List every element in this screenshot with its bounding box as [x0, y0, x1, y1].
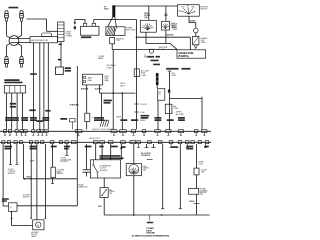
svg-text:4 TERM: 4 TERM — [66, 35, 73, 37]
stub below bus a — [138, 144, 140, 148]
wire switch bottom line — [17, 205, 77, 207]
label 18 GRN tag — [10, 103, 16, 105]
wire long left vertical — [76, 66, 78, 206]
condenser box — [110, 37, 115, 43]
HEI distributor box — [30, 37, 58, 43]
wire resistor to sender — [196, 175, 198, 189]
wire sender to bottom bus — [196, 194, 198, 215]
svg-text:A/C COMP: A/C COMP — [176, 113, 185, 116]
svg-text:TO ECM: TO ECM — [140, 104, 147, 106]
wire arrow stub — [120, 144, 122, 160]
svg-text:C-100: C-100 — [140, 112, 145, 114]
wire coil secondary right — [115, 17, 117, 27]
wire pigtail to module — [75, 18, 85, 20]
svg-text:RUN: RUN — [192, 7, 195, 9]
stub below bus d — [205, 144, 207, 148]
svg-text:TACH: TACH — [104, 8, 109, 11]
fuel gauge wire upper — [133, 144, 135, 163]
wire feed to gauge2 — [165, 6, 167, 21]
wire esc stub — [66, 144, 68, 155]
noise capacitor C2 — [83, 169, 91, 171]
wire relay to bulkhead — [157, 100, 159, 129]
junction block box — [177, 50, 206, 58]
wire condenser to junction line — [111, 44, 113, 50]
svg-text:UNIT: UNIT — [200, 194, 204, 196]
bottom bus line — [104, 214, 209, 216]
wire box stub 2 — [101, 144, 103, 160]
spark plug 1 — [5, 11, 9, 22]
wire HEI pin2 to bulkhead — [39, 43, 41, 130]
distributor cap circle — [9, 36, 19, 46]
wire plug2 to distributor — [21, 21, 23, 35]
stub below bus b — [170, 144, 172, 148]
spark plug 2 — [20, 11, 24, 22]
wire legend drop — [149, 215, 151, 221]
chassis ground symbol — [99, 120, 109, 126]
svg-text:GAUGES FUSE: GAUGES FUSE — [178, 52, 194, 55]
tick ac — [147, 158, 153, 160]
label hot in run row — [166, 68, 179, 70]
engine ground box — [56, 67, 64, 74]
wire bus drop right 2 — [179, 144, 181, 209]
ignition coil C1 — [106, 27, 125, 36]
label ESC module — [81, 36, 91, 38]
wire bus drop right 1 — [162, 144, 164, 209]
inline resistor R2 — [194, 168, 199, 175]
svg-text:14 BLK: 14 BLK — [26, 176, 32, 179]
ground tag above bulkhead — [70, 119, 76, 122]
tick C100 lower — [134, 119, 139, 121]
wire switch to fusible link — [188, 16, 190, 22]
wire tach to junction block — [145, 32, 147, 37]
wire compressor to switch — [103, 178, 105, 188]
wire coil top feed — [114, 5, 178, 7]
wire coil battery to bulkhead — [136, 20, 138, 130]
svg-text:ALL WIRES 18 GA UNLESS OTHERWI: ALL WIRES 18 GA UNLESS OTHERWISE NOTED — [132, 235, 170, 238]
svg-text:CAPACITOR: CAPACITOR — [78, 186, 88, 189]
svg-text:CONTROLS: CONTROLS — [141, 155, 151, 157]
wire switch to blower line — [11, 211, 13, 225]
voltmeter gauge M2 — [161, 21, 169, 30]
wire splice line lower left — [23, 178, 77, 180]
stub below bus c — [186, 144, 188, 148]
wire box stub 1 — [95, 144, 97, 160]
wire ESC pin1 to bulkhead — [5, 93, 7, 129]
wire branch to right drop — [170, 98, 202, 100]
svg-text:OFF: OFF — [186, 6, 189, 8]
svg-text:SENDER: SENDER — [57, 173, 65, 175]
ac clutch stub 1 — [146, 144, 148, 148]
wire bus to headlamp switch — [2, 144, 4, 206]
headlamp switch box S2 — [9, 203, 18, 212]
bulkhead upper connector row — [3, 130, 207, 133]
label engine gnd — [65, 67, 71, 69]
svg-text:SOLENOID: SOLENOID — [100, 170, 109, 172]
svg-text:COIL: COIL — [116, 40, 120, 42]
wire box stub 3 — [110, 144, 112, 160]
wire horizontal splice line — [100, 92, 136, 94]
wire to blower — [36, 144, 38, 220]
coolant sender wire — [52, 144, 54, 167]
inline fuse box on coil wire — [134, 69, 139, 77]
label 16 BLK tag — [45, 110, 50, 112]
label 18 BLK RED — [104, 100, 113, 102]
svg-text:SWITCH: SWITCH — [200, 9, 208, 11]
wire junction left 3 — [44, 144, 46, 218]
ESC module U1 — [81, 26, 100, 35]
wire HEI pin3 to bulkhead — [43, 43, 45, 130]
svg-text:ENGINE CONTROL HARNESS: ENGINE CONTROL HARNESS — [92, 128, 115, 131]
wire ESC pin2 to bulkhead — [11, 93, 13, 129]
connector box on ign wire — [165, 104, 172, 113]
svg-text:PANEL: PANEL — [98, 57, 103, 60]
label 16 BLK — [30, 73, 37, 75]
wire tach drop to bulkhead — [86, 122, 88, 130]
svg-text:BLK/TAN: BLK/TAN — [95, 87, 103, 90]
wire distributor lead lower — [11, 42, 30, 44]
svg-text:DIST CONN: DIST CONN — [126, 30, 136, 32]
noise capacitor wire — [85, 144, 87, 170]
ac switch box S3 — [100, 188, 108, 198]
wire switch to bottom bus — [103, 198, 105, 216]
svg-text:BLK/WHT: BLK/WHT — [81, 88, 89, 90]
wire HEI pin1 to bulkhead — [33, 43, 35, 130]
tachometer gauge M1 — [140, 20, 156, 32]
wire ign fuse drop — [168, 70, 172, 72]
wire module to coil line — [93, 20, 95, 24]
wire HEI pin4 to bulkhead — [47, 43, 49, 130]
junction dot splice 1 — [112, 92, 114, 94]
wire feed to tach — [148, 6, 150, 20]
wire right branch to bulkhead — [201, 99, 203, 130]
diode block on tach drop — [85, 113, 90, 121]
wire labels above bulkhead — [5, 115, 185, 122]
wire distributor to plug3 — [7, 43, 10, 45]
label automatic compressor control — [100, 155, 121, 157]
splice block on ign wire — [168, 90, 170, 93]
junction dot bottom — [161, 214, 163, 216]
compressor clutch box — [90, 160, 120, 178]
coolant temp sender R1 — [51, 167, 55, 177]
svg-text:GAUGES: GAUGES — [166, 33, 174, 36]
ac clutch stub 2 — [153, 144, 155, 148]
wire splice to bulkhead 2 — [121, 93, 123, 129]
tach power box — [83, 74, 103, 85]
wire coil tower to distributor — [27, 18, 47, 20]
wire pair to esc controller — [9, 144, 11, 165]
svg-text:CONN: CONN — [141, 75, 147, 77]
wire distributor lead upper — [11, 37, 31, 39]
svg-text:C-210: C-210 — [198, 163, 202, 165]
svg-text:18 BRN: 18 BRN — [190, 20, 196, 22]
relay box K1 — [158, 89, 165, 101]
svg-text:3 GROUND: 3 GROUND — [146, 233, 155, 235]
svg-text:CONN: CONN — [107, 68, 113, 70]
connector ring — [194, 28, 199, 33]
ignition switch S1 — [178, 5, 200, 17]
svg-text:18 BLK: 18 BLK — [140, 120, 146, 122]
wire tach box right drop — [99, 85, 101, 93]
label 18 BLK bottom — [147, 222, 153, 224]
label ESC distributor — [4, 79, 19, 81]
svg-text:ST: ST — [194, 12, 196, 14]
wire distributor to plug4 — [18, 44, 22, 46]
bulkhead interconnect stubs — [4, 133, 206, 136]
svg-text:(V8): (V8) — [144, 17, 148, 19]
wire oil sender drop — [196, 144, 198, 168]
bulkhead lower bus line — [0, 141, 211, 143]
label 18 WHT tag — [29, 109, 36, 111]
fusible link F1 — [195, 33, 197, 37]
wire coil secondary left — [108, 17, 113, 27]
svg-text:18 BLK/PPL: 18 BLK/PPL — [70, 104, 81, 106]
ESC module terminal 2 — [92, 23, 96, 26]
spark plug 4 — [20, 56, 24, 67]
svg-text:SWITCH: SWITCH — [23, 196, 30, 198]
svg-text:14 BLK: 14 BLK — [189, 200, 195, 203]
connector pigtail A — [74, 19, 76, 22]
svg-text:HEI DISTRIBUTOR: HEI DISTRIBUTOR — [31, 40, 48, 42]
wire gauge2 to junction block — [165, 30, 167, 44]
wire ladder to engine ground — [60, 42, 62, 68]
oil pressure sender box — [189, 188, 199, 194]
wire labels below bulkhead — [4, 146, 208, 150]
fuse bar F2 — [156, 73, 159, 85]
fuel gauge M3 — [126, 163, 141, 175]
bulkhead upper bus line — [0, 130, 211, 132]
junction dot splice 2 — [122, 92, 124, 94]
wire ESC pin4 to bulkhead — [21, 93, 23, 129]
tick C100 mid — [134, 111, 139, 113]
connector ring starter — [149, 49, 153, 53]
wire ground drop — [101, 93, 103, 119]
svg-text:GAUGE CONT: GAUGE CONT — [89, 137, 101, 140]
wire tach box left drop — [86, 85, 88, 113]
svg-text:BLOCK: BLOCK — [159, 49, 166, 51]
wire fuel gauge down — [133, 176, 135, 215]
svg-text:M: M — [37, 225, 39, 227]
distributor connector ladder — [58, 22, 64, 42]
pickup coil box — [42, 33, 52, 37]
svg-text:12 RED: 12 RED — [172, 29, 178, 31]
wire junction left 1 — [22, 144, 24, 179]
svg-text:25 AMP B+: 25 AMP B+ — [178, 55, 189, 58]
wire fuse to relay box — [156, 85, 158, 88]
spark plug 3 — [5, 56, 9, 67]
svg-text:(V8 ONLY): (V8 ONLY) — [60, 161, 68, 163]
svg-text:MODULE: MODULE — [8, 173, 16, 175]
wire junction left 2 — [30, 144, 32, 218]
ESC module terminal 1 — [83, 23, 87, 26]
label fuse wire — [148, 56, 155, 58]
wire ESC pin3 to bulkhead — [16, 93, 18, 129]
ignition coil tower bar — [112, 5, 115, 17]
label dimmer — [2, 198, 9, 200]
label SPARK PLUGS — [8, 7, 18, 9]
svg-text:CONN: CONN — [173, 108, 179, 110]
blower motor B1 — [33, 220, 44, 230]
ESC distributor connector box — [4, 86, 25, 93]
tick C100 upper — [134, 103, 139, 105]
wire splice to bulkhead 1 — [112, 50, 114, 130]
tick right sender — [194, 203, 200, 205]
wire plug1 to distributor — [6, 21, 8, 35]
bulkhead lower connector row — [2, 141, 209, 144]
